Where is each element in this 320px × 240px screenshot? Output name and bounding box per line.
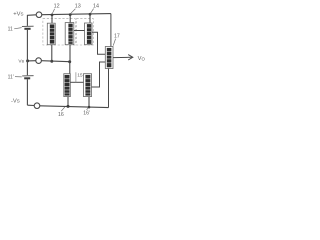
battery 11 short thick plate <box>24 28 30 30</box>
leader 11 <box>14 28 21 29</box>
svg-text:14: 14 <box>93 3 99 9</box>
wire T2/VB junction down to B1 <box>69 62 71 74</box>
svg-text:+VS: +VS <box>13 11 23 17</box>
left rail bottom segment <box>26 79 28 105</box>
wire top rail +VS <box>27 14 36 17</box>
wire +VS rail down to block 17 <box>110 14 112 47</box>
block B2 box <box>84 74 92 97</box>
node T2 junction dot <box>69 13 72 16</box>
leader 14 <box>91 9 94 14</box>
wire T3 to block 17 input <box>92 32 105 54</box>
svg-text:15: 15 <box>77 72 83 77</box>
wire B2 to block 17 lower input <box>92 62 106 87</box>
block U17 text column <box>107 48 112 67</box>
block T1 text column <box>50 24 55 43</box>
wire stub T1 bottom <box>51 45 53 62</box>
block U17 box <box>105 47 113 69</box>
node VB dot on left rail <box>26 59 29 62</box>
battery 11 long plate <box>22 25 34 27</box>
wire stub T3 top <box>89 14 91 23</box>
svg-text:16: 16 <box>58 112 64 118</box>
wire stub T2 bottom <box>69 45 71 62</box>
leader 11' <box>15 76 22 78</box>
node dot B1/bottom rail <box>67 105 70 108</box>
node dot B2/bottom rail <box>88 106 91 109</box>
block T2 text column <box>68 24 73 44</box>
wire stub B1 bottom <box>67 97 69 107</box>
block T3 text column <box>87 24 92 44</box>
dashed enclosure top row box B <box>76 19 93 45</box>
wire stub B2 bottom <box>88 97 90 108</box>
terminal +VS circle <box>36 12 42 18</box>
wire block 17 bottom to -VS rail <box>108 69 110 108</box>
bottom rail left of terminal <box>27 104 34 106</box>
wire link T2-T3 <box>74 30 85 32</box>
leader 12 <box>52 9 54 14</box>
wire top rail right of terminal <box>42 14 111 15</box>
svg-text:VO: VO <box>138 56 146 62</box>
svg-text:16': 16' <box>83 111 90 117</box>
leader 13 <box>71 9 76 14</box>
block T1 box <box>47 23 55 45</box>
node T3 junction dot <box>89 13 92 16</box>
node 15 stub <box>75 72 77 82</box>
leader 17 <box>113 39 115 46</box>
svg-text:17: 17 <box>114 34 120 40</box>
svg-text:11: 11 <box>8 27 13 33</box>
leader 16' <box>87 108 89 110</box>
leader 16 <box>61 107 65 111</box>
battery 11' short thick plate <box>24 77 30 79</box>
block T2 box <box>65 23 74 45</box>
svg-text:13: 13 <box>75 4 81 10</box>
wire link B1-B2 <box>70 81 83 83</box>
battery 11' long plate <box>22 75 33 77</box>
block T3 box <box>85 23 93 45</box>
output arrow Vo <box>113 56 132 58</box>
svg-text:-VS: -VS <box>11 98 20 104</box>
wire VB rail <box>42 61 70 62</box>
terminal VB circle <box>36 58 42 64</box>
wire stub T2 top <box>69 15 71 23</box>
block B2 text column <box>85 75 90 96</box>
node dot T1/VB rail <box>50 60 53 63</box>
svg-text:VB: VB <box>18 59 24 65</box>
node dot T2/B1 <box>68 60 71 63</box>
left rail mid segment <box>26 30 28 75</box>
terminal -VS circle <box>34 103 40 109</box>
svg-text:12: 12 <box>54 3 60 9</box>
wire stub T1 top <box>51 15 53 23</box>
left rail top segment <box>26 15 28 26</box>
bottom rail right of terminal <box>40 106 109 108</box>
block B1 box <box>64 74 71 97</box>
block B1 text column <box>64 75 69 96</box>
svg-text:11': 11' <box>8 74 14 80</box>
node 12 junction dot <box>51 14 54 17</box>
arrowhead <box>128 55 133 60</box>
wire VB dot to circle <box>27 60 35 62</box>
dashed enclosure top row box A <box>43 19 75 45</box>
